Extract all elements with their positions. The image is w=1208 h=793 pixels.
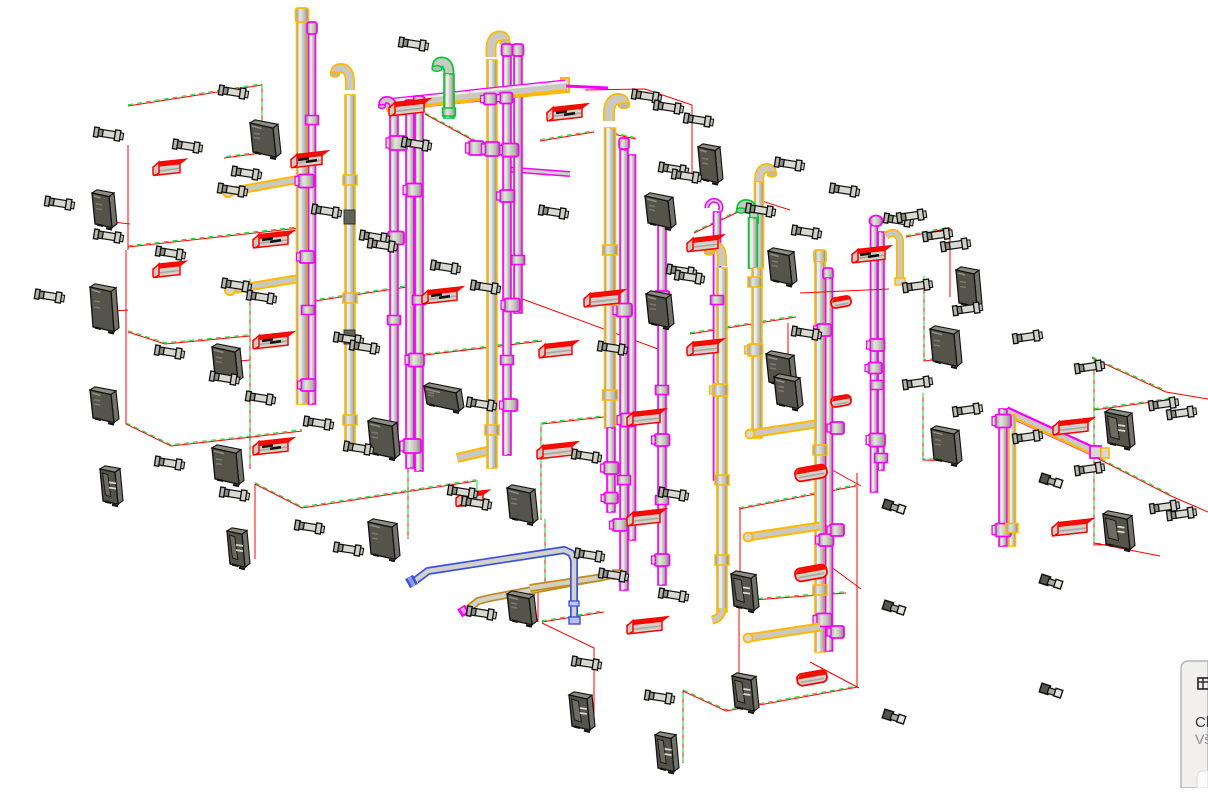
valve assembly V9 [34,289,65,304]
valve assembly V6 [44,196,75,211]
elbow riser F [648,210,663,228]
detector pill R20 [794,564,828,582]
valve assembly V24 [538,205,569,220]
pipe magenta stub top right [566,86,608,88]
wire mid small [604,131,636,139]
valve assembly V27 [303,416,334,431]
elbow riser E yellow [609,99,630,121]
wire floor2 mid [302,284,420,303]
elbow green pipe [432,62,449,81]
collar I b [813,445,827,455]
pipe gold bottom right [530,577,604,588]
panel E14 [698,144,723,185]
wire diag c8 [810,662,859,688]
valve I a [814,324,832,336]
wire col x255 [254,484,256,559]
wire diag c1 [425,113,478,143]
valve assembly V60 [902,279,933,294]
valve C mid2 [385,232,404,245]
valve assembly V52 [658,487,689,502]
valve J b [865,363,882,374]
wire col x739b [738,602,740,702]
wire r edge2 [1171,496,1208,512]
tooltip icon [1198,678,1208,689]
detector R3 [389,99,430,116]
wire col x950 [949,228,951,297]
collar E b [603,245,618,255]
elbow riser H green [737,204,755,224]
riser magenta J3 [878,232,884,470]
panel E8 [212,445,244,486]
detector pill R14 [830,295,851,308]
riser magenta G [714,212,721,480]
wire diag c9 [740,592,846,601]
cap D3 [513,44,524,56]
riser magenta K [999,409,1007,546]
detector R18 [627,509,666,526]
valve assembly V37 [571,656,602,671]
wire floor2 mid b [540,131,594,141]
valve assembly V31 [447,485,478,500]
valve A group [295,175,314,188]
detector R10 [584,290,625,307]
collar B a [343,175,357,185]
valve assembly V46 [791,225,822,240]
wire bl2 [542,623,594,721]
detector R16 [537,442,578,459]
valve F c [652,434,670,446]
valve C low [405,354,424,367]
small valve S5 [882,709,906,724]
elbow riser C1 [379,100,395,119]
valve J c [866,434,885,447]
small valve S4 [882,600,906,615]
detector R13 [852,246,891,263]
panel E21 [931,426,962,466]
valve I r1 [827,422,844,434]
detector R5 [153,261,186,277]
collar H a [748,277,762,287]
detector R22 [1053,418,1094,435]
junction D1 [481,94,497,105]
detector pill R21 [830,394,851,407]
wire stub e3 [114,310,128,311]
panel E18 [774,374,803,411]
collar C1 a [388,316,401,325]
collar A2 a [306,116,319,125]
valve assembly V61 [1012,330,1043,345]
detector R2 [291,151,328,168]
valve assembly V63 [902,376,933,391]
valve assembly V58 [940,238,971,253]
valve assembly V50 [883,213,914,228]
valve assembly V11 [246,290,277,305]
cap riser A [296,8,309,22]
panel E28 [507,591,537,627]
valve assembly V2 [93,127,124,142]
wire col x923 [923,393,955,461]
valve A mid [297,251,315,263]
valve H b [745,344,763,356]
riser yellow E [605,128,616,428]
valve assembly V8 [155,246,186,261]
valve G b [710,384,728,396]
panel E12 [424,383,464,413]
valve assembly V49 [791,326,822,341]
collar D c [512,256,525,265]
riser magenta I2 [826,278,833,651]
cap riser A2 [307,22,317,34]
riser yellow D [487,60,497,468]
valve assembly V48 [674,270,705,285]
collar F b [656,386,669,395]
small valve S2 [1039,473,1063,488]
valve C top [386,136,407,150]
duct main top [386,78,569,107]
panel E1 [250,120,281,159]
pipe gold bottom [461,570,622,615]
wire roof mid [585,89,692,105]
valve C bottom [400,439,421,453]
valve assembly V10 [221,278,252,293]
panel E15 [768,248,797,287]
small valve S3 [1039,574,1063,589]
wire col x859 [856,473,858,687]
elbow G2 bottom [712,608,722,620]
cap riser I [814,250,826,263]
valve I c [816,534,834,546]
detector R12 [687,339,724,356]
collar G d [715,555,729,565]
valve assembly V13 [209,371,240,386]
panel E22 [1105,409,1135,450]
wire floor2 left [128,227,300,247]
branch pipe yellow left lower [225,277,308,295]
collar E f [603,390,618,400]
valve assembly V7 [93,229,124,244]
valve assembly V26 [349,340,380,355]
rung pipe mid [744,526,821,542]
wire diag r3 [1093,455,1171,496]
riser yellow H2 [752,268,762,438]
valve assembly V38 [631,89,662,104]
panel E27 [569,692,595,732]
detector R9 [539,341,578,358]
collar F d [656,496,669,505]
riser magenta C1 [390,112,398,452]
panel E25 [732,673,759,713]
spiral fitting G top [707,200,721,211]
pipe horizontal magenta upper [503,169,570,174]
wire r fan2 [1094,543,1160,556]
riser green H [749,218,758,268]
valve assembly V55 [644,690,675,705]
wire col x788 [787,323,789,372]
elbow riser G yellow [705,246,723,266]
wire left col a [127,145,129,250]
valve assembly V39 [653,100,684,115]
valve D a [499,144,519,157]
riser magenta J [871,226,878,492]
detector R26 [456,490,489,506]
wire J floor [800,289,889,293]
panel E7 [227,528,250,569]
valve F a [652,291,670,303]
valve cluster Db [482,142,500,156]
panel E19 [956,267,982,309]
detector R6 [253,231,294,248]
valve I r2 [827,524,844,536]
valve C mid [403,184,422,197]
detector R17 [627,409,666,426]
valve assembly V18 [401,137,432,152]
elbow riser B [331,68,351,90]
collar D g [485,425,499,435]
valve assembly V33 [294,520,325,535]
valve A2 low [298,379,316,391]
valve assembly V53 [598,568,629,583]
valve assembly V35 [574,548,605,563]
panel E5 [90,387,119,425]
wire diag r2 [1092,357,1166,392]
collar K c [1006,524,1018,533]
wire floor3b left [128,331,250,344]
wire bl1 [542,611,604,622]
panel E16 [646,291,674,330]
collar C3 b [413,296,426,305]
valve assembly V43 [774,157,805,172]
riser yellow G2 [717,268,727,612]
valve assembly V32 [461,496,492,511]
valve cluster Da [466,141,484,155]
panel E11 [507,485,538,525]
svg-text:Vš: Vš [1195,731,1208,747]
panel E13 [645,193,676,230]
collar green [443,108,456,116]
valve assembly V29 [343,441,374,456]
valve assembly V41 [658,162,689,177]
valve E4 b [601,493,618,504]
wire col x924 [924,276,941,361]
wire stub e4 [240,360,250,361]
panel E4 [212,344,243,383]
collar A2 b [302,306,315,315]
elbow riser D yellow [491,36,510,57]
wire stub r26 [476,480,478,497]
valve assembly V36 [466,606,497,621]
riser yellow B [345,95,355,444]
valve E a [613,304,632,317]
panel E9 [368,418,400,460]
detector R11 [687,235,724,252]
cap C3 [414,96,425,107]
wire floor3 mid [408,340,542,357]
detector pill R25 [796,669,828,686]
wire col x692 [691,105,693,174]
valve assembly V51 [597,341,628,356]
junction D2 [497,93,513,104]
valve F e [652,554,670,566]
riser magenta F [658,222,666,585]
cap riser I2 [823,268,833,279]
detector R24 [627,617,668,634]
riser magenta E4 [607,428,615,512]
valve assembly V21 [367,238,398,253]
rung pipe top [746,423,823,439]
collar I e [813,585,827,595]
wire floor3 left [126,423,302,446]
wire roof tri a [694,201,759,233]
wire col x740 [739,509,741,606]
riser yellow H0 [755,182,764,268]
riser yellow K2 [1009,415,1016,546]
detector R8 [422,287,463,304]
collar G c [715,475,729,485]
panel E20 [930,326,962,368]
collar B c [343,415,357,425]
wire floor1 right edge [224,84,262,158]
valve assembly V68 [1074,462,1105,477]
collar J d [875,454,888,463]
valve assembly V56 [896,209,927,224]
duct main top overlay (in front of D risers) [470,82,566,98]
wire r fan1 [1094,398,1174,410]
wire floor c5 [739,485,856,509]
wire col x1094 [1094,357,1132,545]
valve E4 a [601,462,619,474]
collar D e [501,356,514,365]
collar B b [343,293,357,303]
panel E6 [100,466,123,506]
wire diag c2 [517,297,658,349]
valve assembly V22 [430,260,461,275]
valve assembly V67 [1012,430,1043,445]
panel E26 [655,732,679,774]
valve K b [992,524,1011,537]
valve I d [813,614,832,627]
valve D f [500,399,518,411]
valve assembly V19 [311,204,342,219]
valve assembly V4 [231,166,262,181]
cap E2 [619,138,629,149]
riser green [444,74,454,118]
wire right r1 [906,227,950,237]
cap riser J [870,216,883,227]
valve assembly V28 [466,397,497,412]
collar E d [618,476,631,485]
riser yellow A [297,20,308,404]
valve assembly V70 [1166,507,1197,522]
detector R1 [153,159,186,175]
detector R7 [253,332,294,349]
wire col x545 [544,519,546,591]
valve assembly V65 [1148,397,1179,412]
svg-text:Ch: Ch [1195,714,1208,731]
riser magenta D3 [514,56,522,313]
valve assembly V54 [658,588,689,603]
riser magenta C3 [415,108,423,471]
pipe blue [409,550,580,624]
valve E c [617,414,636,427]
detector pill R19 [794,464,828,482]
wire roof tri b [759,200,790,210]
valve assembly V40 [683,113,714,128]
wire col x541 [540,423,542,520]
wire stub e2 [112,222,130,224]
panel E2 [92,190,117,230]
wire diag c7 [830,566,861,589]
tooltip panel [1181,661,1208,788]
valve assembly V1 [218,85,249,100]
wire col x250 [249,279,251,469]
valve assembly V16 [245,391,276,406]
valve E e [610,519,628,531]
detector R15 [253,438,294,455]
small valve S1 [882,499,906,514]
duct inline dark B [344,210,355,224]
panel E17 [766,351,797,389]
panel E3 [90,284,119,334]
valve D b [497,190,515,202]
valve assembly V14 [154,456,185,471]
valve D d [501,299,520,312]
wire r edge [1166,392,1208,399]
collar J b2 [871,381,884,390]
wire diag c10 [542,416,604,424]
collar E g [603,295,618,305]
bracket pipe J2 yellow [886,233,905,285]
small valve S6 [1039,683,1063,698]
elbow riser H yellow [759,168,777,188]
valve assembly V5 [217,183,248,198]
valve assembly V69 [1149,500,1180,515]
riser magenta A2 [309,33,316,404]
branch duct yellow mid [457,449,496,458]
panel E24 [731,571,759,613]
wire bottom path [683,686,858,763]
valve assembly V15 [219,487,250,502]
wire col x538 [537,591,539,622]
valve assembly V59 [952,302,983,317]
wire floor1 left [128,84,262,106]
cap C2 [405,100,416,111]
riser magenta C2 [406,112,414,468]
wire floor4 left [255,480,476,508]
valve assembly V12 [154,345,185,360]
wire diag c6 [816,461,861,486]
panel E10 [368,519,400,561]
valve K a [992,415,1011,428]
valve assembly V42 [671,169,702,184]
panel E23 [1103,511,1135,551]
valve assembly V30 [571,449,602,464]
valve assembly V17 [398,37,429,52]
valve assembly V64 [952,403,983,418]
valve assembly V66 [1166,406,1197,421]
rung pipe low [744,627,821,643]
valve assembly V44 [829,183,860,198]
wire left col b [125,250,127,424]
valve assembly V3 [172,139,203,154]
tooltip inner white box [1197,771,1208,788]
riser magenta D2 [503,56,511,455]
valve assembly V47 [666,264,697,279]
collar G a [711,296,724,305]
valve J a [867,339,885,351]
riser yellow I [815,262,825,652]
valve assembly V62 [1074,360,1105,375]
branch pipe yellow left upper [223,178,306,197]
